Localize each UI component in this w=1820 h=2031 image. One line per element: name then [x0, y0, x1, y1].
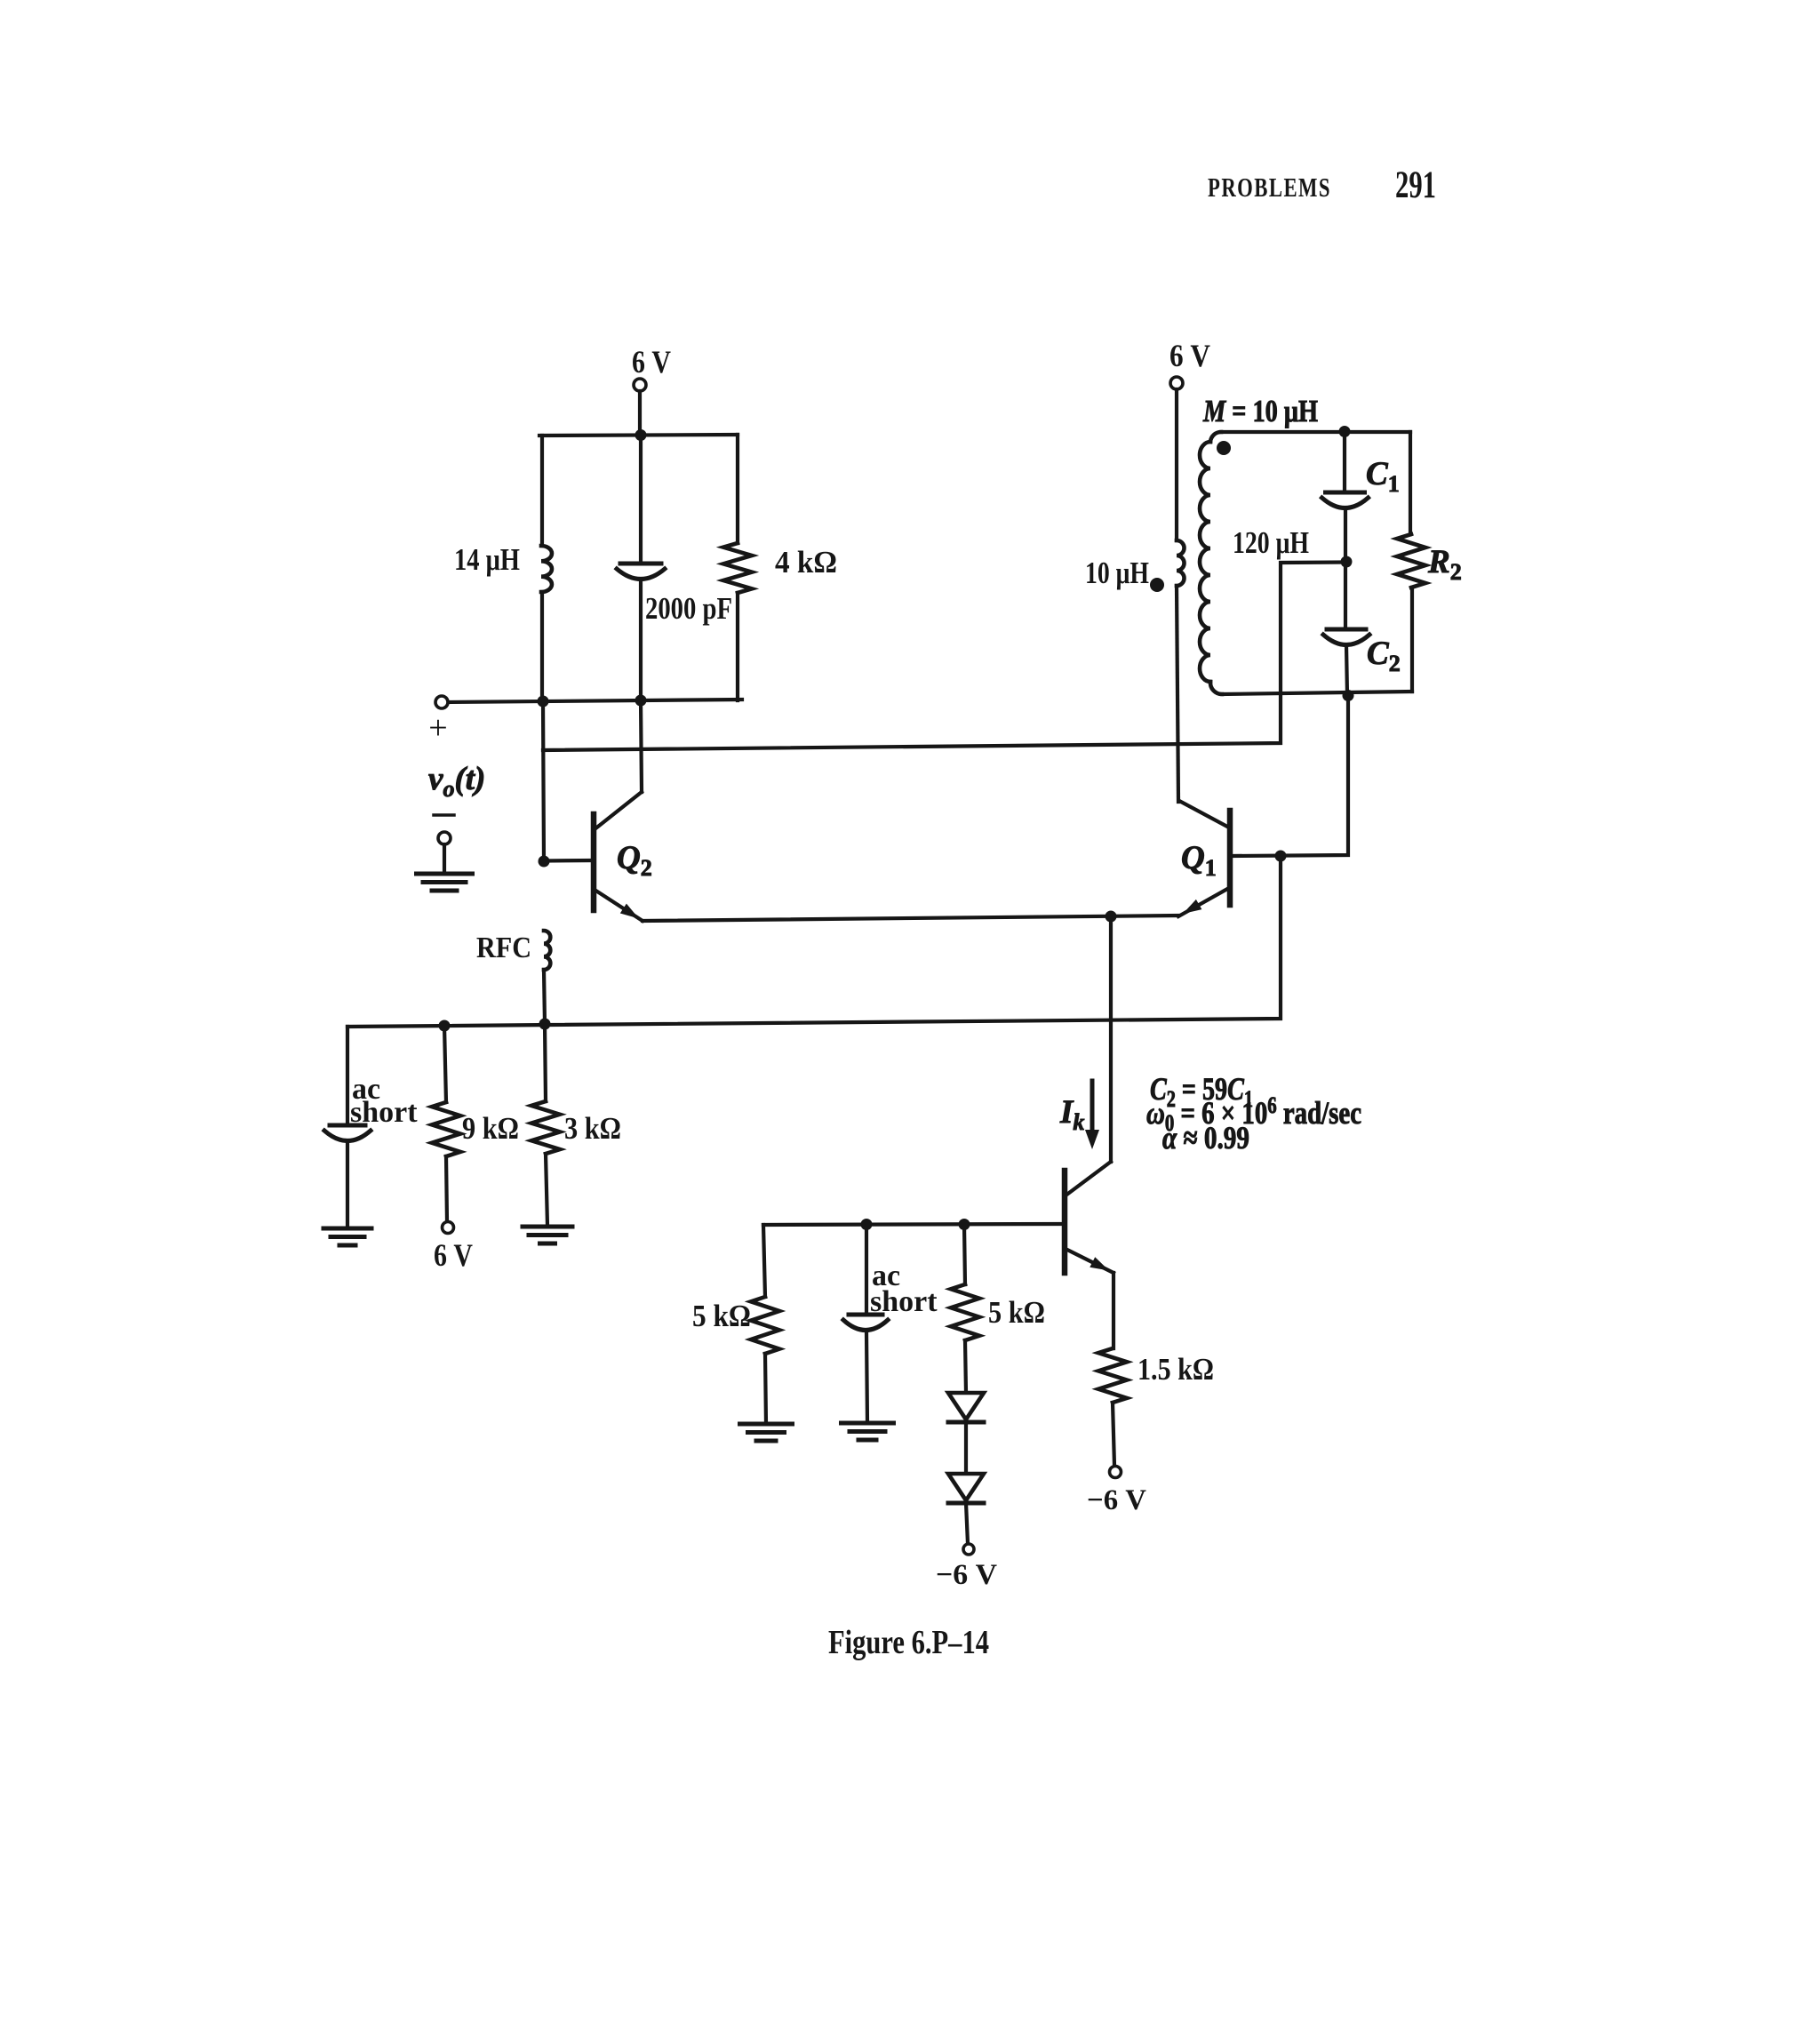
label 10 uH (primary) [1085, 556, 1149, 590]
label C2 = 59 C1 [1150, 1071, 1253, 1112]
capacitor C1 [1322, 432, 1369, 562]
node phasing dot (secondary) [1217, 441, 1231, 455]
inductor RFC [544, 931, 550, 970]
node Q1 base junction [1275, 851, 1287, 862]
svg-text:−6 V: −6 V [1087, 1484, 1146, 1516]
node emitter rail / Ik tap [1106, 911, 1117, 923]
node left tank top junction [635, 429, 647, 441]
wire right tank top rail [1221, 430, 1410, 434]
terminal v_o(t) ground [438, 832, 451, 874]
svg-text:+: + [428, 709, 447, 747]
svg-text:PROBLEMS: PROBLEMS [1208, 172, 1331, 203]
svg-text:6 V: 6 V [434, 1237, 473, 1273]
svg-text:6 V: 6 V [632, 344, 671, 380]
label 1.5 kOhm [1137, 1352, 1214, 1387]
caption Figure 6.P-14 [828, 1624, 989, 1661]
label 9 kOhm [462, 1111, 519, 1146]
capacitor 2000 pF [617, 436, 665, 700]
ground (5 kOhm left) [740, 1424, 793, 1441]
wire feedback (C1-C2 tap to Q2 base column) [543, 563, 1346, 751]
svg-text:291: 291 [1395, 164, 1436, 206]
wire Q2 base riser [543, 701, 544, 861]
svg-text:14 μH: 14 μH [454, 542, 520, 577]
power terminal 6 V (right tank) [1170, 377, 1183, 389]
node C1-C2 junction [1341, 556, 1353, 568]
transistor Q3 [1065, 1162, 1114, 1273]
svg-text:3 kΩ: 3 kΩ [564, 1111, 621, 1146]
wire diode to -6V terminal [966, 1503, 968, 1544]
svg-text:vo(t): vo(t) [428, 761, 485, 802]
svg-text:9 kΩ: 9 kΩ [462, 1111, 519, 1146]
node Q3 base rail / ac short junction [861, 1219, 873, 1230]
label 5 kOhm (diode branch) [988, 1295, 1045, 1330]
label I_k with arrow [1059, 1081, 1099, 1149]
node bias rail / 3 kOhm junction [539, 1019, 551, 1030]
svg-text:5 kΩ: 5 kΩ [988, 1295, 1045, 1330]
label -6 V (diode branch) [936, 1559, 997, 1591]
label 4 kOhm [775, 545, 837, 580]
wire Q3 collector drop [1109, 916, 1113, 1162]
node Q2 base [539, 856, 550, 868]
svg-text:4 kΩ: 4 kΩ [775, 545, 837, 580]
wire bias rail [347, 856, 1281, 1027]
ground (ac short Q3) [842, 1423, 894, 1440]
resistor 5 kOhm (diode branch) [951, 1225, 979, 1393]
resistor 4 kOhm [723, 435, 752, 700]
svg-text:Figure 6.P–14: Figure 6.P–14 [828, 1624, 989, 1661]
inductor 14 uH [541, 436, 552, 701]
label Q1 [1181, 840, 1217, 881]
label minus sign [434, 813, 454, 817]
label ac short (Q3 base) [870, 1259, 938, 1318]
wire RFC to bias rail [544, 970, 545, 1024]
resistor 3 kOhm [531, 1024, 560, 1226]
label 6 V (right tank supply) [1169, 338, 1210, 373]
node bottom rail / 14 uH junction [538, 696, 549, 708]
wire between diodes [964, 1422, 968, 1474]
svg-text:10 μH: 10 μH [1085, 556, 1149, 590]
transistor Q1 [1178, 801, 1230, 916]
inductor secondary 120 uH [1200, 432, 1222, 694]
page number 291 [1395, 164, 1436, 206]
wire right tank bottom rail [1222, 692, 1412, 694]
inductor primary 10 uH [1177, 540, 1185, 586]
resistor 5 kOhm (left) [751, 1225, 779, 1424]
wire left tank bottom rail [447, 700, 742, 702]
ground (ac short bias) [323, 1228, 371, 1245]
svg-text:1.5 kΩ: 1.5 kΩ [1137, 1352, 1214, 1387]
node top rail / C1 junction [1339, 426, 1351, 437]
svg-text:−6 V: −6 V [936, 1559, 997, 1591]
svg-text:2000 pF: 2000 pF [645, 591, 732, 626]
label 5 kOhm (left) [692, 1299, 751, 1333]
label 2000 pF [645, 591, 732, 626]
ground (3 kOhm) [523, 1227, 572, 1243]
wire Q1 base (to tank bottom node) [1232, 695, 1348, 856]
header text PROBLEMS [1208, 172, 1331, 203]
transistor Q2 [544, 792, 643, 921]
capacitor C2 [1323, 562, 1369, 695]
svg-text:5 kΩ: 5 kΩ [692, 1299, 751, 1333]
svg-text:6 V: 6 V [1169, 338, 1210, 373]
label C2 [1367, 636, 1401, 676]
svg-text:M = 10 μH: M = 10 μH [1202, 394, 1318, 428]
resistor R2 [1397, 432, 1425, 692]
label M = 10 uH [1202, 394, 1318, 428]
terminal -6 V (1.5 kOhm) [1110, 1467, 1122, 1478]
capacitor ac short (Q3 base) [843, 1224, 888, 1423]
node tank bottom / C2 junction [1343, 690, 1354, 701]
label 6 V (left tank supply) [632, 344, 671, 380]
label 3 kOhm [564, 1111, 621, 1146]
node phasing dot (primary) [1150, 578, 1164, 592]
wire left tank top rail [539, 435, 738, 436]
diode D1 [948, 1393, 984, 1422]
label 6 V (below 9 kOhm) [434, 1237, 473, 1273]
capacitor ac short (bias) [324, 1027, 371, 1228]
wire Q1 collector riser [1177, 586, 1178, 802]
node bottom rail / capacitor junction [635, 695, 647, 707]
diode D2 [948, 1474, 984, 1503]
node Q3 base rail / diode branch junction [959, 1219, 970, 1230]
terminal 6 V (below 9 kOhm) [443, 1222, 454, 1234]
ground (v_o reference) [417, 874, 473, 891]
label ac short (bias) [350, 1073, 418, 1129]
wire Q3 base rail [763, 1224, 1063, 1225]
label plus sign [428, 709, 447, 747]
svg-text:short: short [350, 1096, 418, 1129]
node bias rail / 9 kOhm junction [439, 1020, 451, 1032]
wire left supply drop [638, 391, 642, 436]
label omega0 = 6e6 rad/sec [1146, 1092, 1361, 1136]
label RFC [476, 932, 531, 964]
svg-text:120 μH: 120 μH [1233, 525, 1309, 560]
wire right supply drop [1175, 389, 1178, 540]
terminal -6 V (diode branch) [963, 1544, 974, 1555]
power terminal 6 V (left tank) [634, 379, 646, 391]
svg-text:α ≈ 0.99: α ≈ 0.99 [1162, 1120, 1249, 1155]
label alpha approx 0.99 [1162, 1120, 1249, 1155]
svg-text:short: short [870, 1285, 938, 1318]
label C1 [1366, 456, 1400, 497]
label Q2 [617, 840, 652, 881]
label -6 V (1.5 kOhm) [1087, 1484, 1146, 1516]
label 14 uH [454, 542, 520, 577]
wire emitter rail [643, 916, 1178, 921]
label 120 uH [1233, 525, 1309, 560]
label R2 [1427, 544, 1462, 585]
wire Q2 collector riser [641, 700, 642, 792]
terminal v_o(t) plus [435, 696, 448, 708]
wire Q3 emitter drop [1112, 1273, 1115, 1348]
label v_o(t) [428, 761, 485, 802]
svg-text:RFC: RFC [476, 932, 531, 964]
resistor 1.5 kOhm [1098, 1348, 1127, 1466]
resistor 9 kOhm [432, 1026, 460, 1221]
